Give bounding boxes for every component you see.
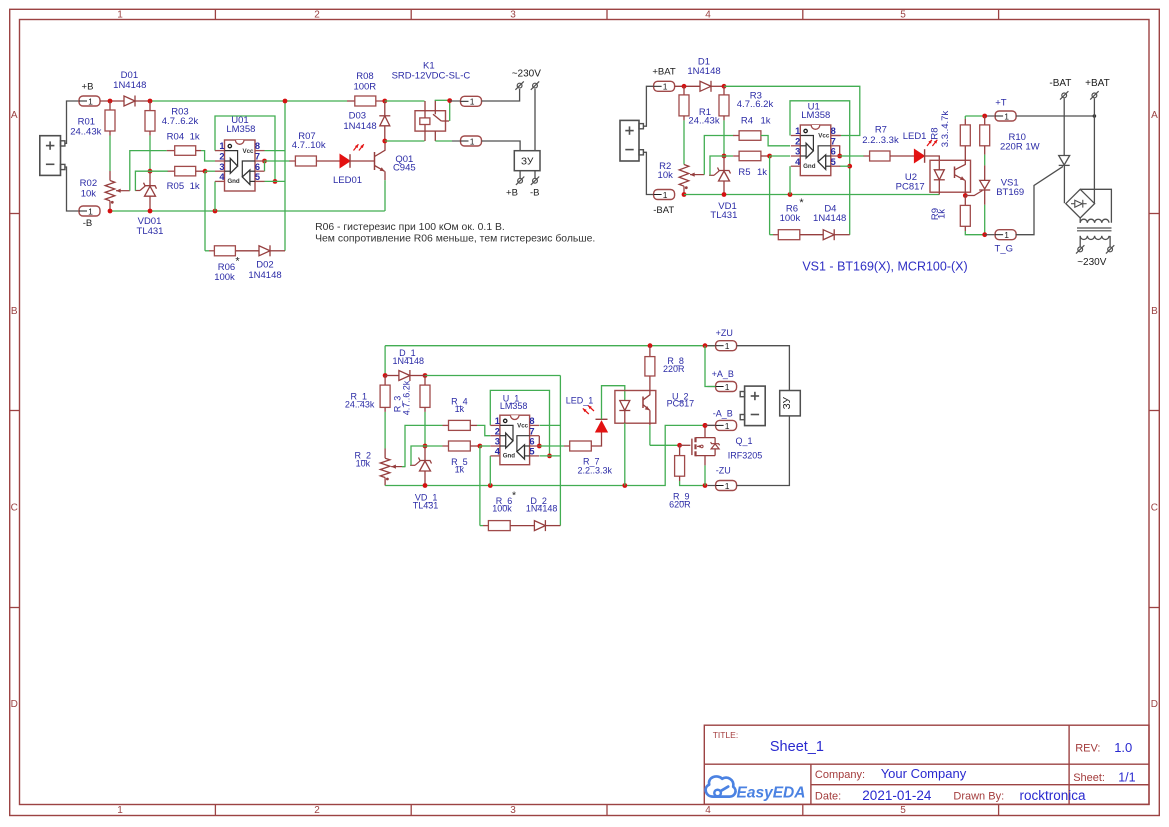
svg-text:-B: -B bbox=[530, 188, 540, 199]
svg-text:Vcc: Vcc bbox=[818, 133, 830, 140]
svg-text:4: 4 bbox=[795, 157, 801, 167]
svg-text:SRD-12VDC-SL-C: SRD-12VDC-SL-C bbox=[392, 71, 471, 82]
svg-text:4: 4 bbox=[219, 172, 225, 182]
svg-text:ЗУ: ЗУ bbox=[782, 396, 793, 409]
svg-text:620R: 620R bbox=[669, 500, 691, 510]
svg-text:BT169: BT169 bbox=[996, 187, 1024, 198]
svg-text:1: 1 bbox=[88, 96, 93, 106]
svg-text:PC817: PC817 bbox=[896, 181, 925, 192]
svg-text:REV:: REV: bbox=[1075, 743, 1100, 755]
svg-text:1k: 1k bbox=[757, 167, 767, 178]
svg-text:-BAT: -BAT bbox=[1049, 78, 1071, 89]
svg-text:7: 7 bbox=[529, 426, 534, 436]
svg-text:1k: 1k bbox=[455, 464, 465, 474]
svg-text:2: 2 bbox=[314, 10, 320, 21]
svg-text:*: * bbox=[512, 490, 516, 502]
svg-text:10k: 10k bbox=[658, 170, 674, 181]
svg-text:6: 6 bbox=[529, 437, 534, 447]
svg-text:LED1: LED1 bbox=[903, 131, 927, 142]
svg-text:2: 2 bbox=[795, 136, 800, 146]
svg-text:R4: R4 bbox=[741, 115, 753, 126]
svg-text:1k: 1k bbox=[190, 131, 200, 142]
svg-text:1: 1 bbox=[1004, 111, 1009, 121]
svg-text:5: 5 bbox=[900, 805, 906, 816]
svg-text:1: 1 bbox=[495, 416, 500, 426]
svg-text:Drawn By:: Drawn By: bbox=[953, 791, 1004, 803]
svg-text:1k: 1k bbox=[190, 181, 200, 192]
svg-text:*: * bbox=[799, 197, 804, 209]
svg-text:8: 8 bbox=[529, 416, 534, 426]
svg-text:B: B bbox=[11, 306, 18, 317]
svg-text:1: 1 bbox=[88, 206, 93, 216]
svg-text:EasyEDA: EasyEDA bbox=[737, 784, 806, 801]
svg-text:1.0: 1.0 bbox=[1114, 740, 1132, 755]
svg-text:LM358: LM358 bbox=[801, 110, 830, 121]
svg-text:R5: R5 bbox=[738, 167, 750, 178]
svg-text:1N4148: 1N4148 bbox=[687, 66, 720, 77]
svg-text:2.2..3.3k: 2.2..3.3k bbox=[578, 466, 613, 476]
svg-text:1: 1 bbox=[470, 97, 475, 107]
svg-text:5: 5 bbox=[255, 172, 260, 182]
svg-text:Vcc: Vcc bbox=[517, 423, 529, 430]
svg-text:3: 3 bbox=[795, 147, 800, 157]
svg-text:+A_B: +A_B bbox=[712, 369, 734, 379]
svg-text:C: C bbox=[11, 503, 18, 514]
svg-text:C945: C945 bbox=[393, 163, 416, 174]
svg-text:1k: 1k bbox=[760, 115, 770, 126]
svg-text:4: 4 bbox=[705, 805, 711, 816]
svg-text:A: A bbox=[1151, 110, 1158, 121]
svg-text:Company:: Company: bbox=[815, 769, 865, 781]
svg-text:R08: R08 bbox=[356, 71, 373, 82]
svg-text:3: 3 bbox=[495, 437, 500, 447]
svg-text:ЗУ: ЗУ bbox=[521, 157, 534, 168]
svg-text:R04: R04 bbox=[167, 131, 184, 142]
svg-text:1N4148: 1N4148 bbox=[526, 504, 558, 514]
svg-text:7: 7 bbox=[255, 152, 260, 162]
svg-text:24..43k: 24..43k bbox=[70, 126, 101, 137]
svg-text:1: 1 bbox=[725, 382, 730, 392]
svg-text:A: A bbox=[11, 110, 18, 121]
svg-text:3: 3 bbox=[510, 805, 516, 816]
svg-text:R06 - гистерезис при 100 кОм о: R06 - гистерезис при 100 кОм ок. 0.1 В. bbox=[315, 222, 505, 233]
svg-text:1: 1 bbox=[219, 141, 224, 151]
svg-text:6: 6 bbox=[831, 147, 836, 157]
svg-text:3: 3 bbox=[510, 10, 516, 21]
svg-text:1: 1 bbox=[725, 341, 730, 351]
svg-text:+BAT: +BAT bbox=[652, 66, 676, 77]
svg-text:LED01: LED01 bbox=[333, 175, 362, 186]
svg-text:Q_1: Q_1 bbox=[735, 436, 752, 446]
svg-text:220R: 220R bbox=[663, 364, 685, 374]
svg-text:+B: +B bbox=[506, 188, 518, 199]
svg-text:IRF3205: IRF3205 bbox=[728, 451, 763, 461]
svg-text:6: 6 bbox=[255, 162, 260, 172]
svg-text:R8: R8 bbox=[930, 127, 941, 139]
svg-text:10k: 10k bbox=[81, 188, 97, 199]
svg-text:T_G: T_G bbox=[995, 243, 1013, 254]
svg-text:7: 7 bbox=[831, 136, 836, 146]
svg-text:5: 5 bbox=[529, 447, 534, 457]
svg-text:5: 5 bbox=[900, 10, 906, 21]
svg-text:3: 3 bbox=[219, 162, 224, 172]
svg-text:D: D bbox=[1151, 699, 1158, 710]
svg-text:100k: 100k bbox=[780, 213, 801, 224]
svg-text:B: B bbox=[1151, 306, 1158, 317]
svg-text:1k: 1k bbox=[455, 404, 465, 414]
svg-text:-A_B: -A_B bbox=[713, 409, 733, 419]
svg-text:Чем сопротивление R06 меньше,: Чем сопротивление R06 меньше, тем гистер… bbox=[315, 232, 595, 244]
svg-text:1k: 1k bbox=[937, 209, 948, 219]
svg-text:VS1 - BT169(X), MCR100-(X): VS1 - BT169(X), MCR100-(X) bbox=[802, 259, 967, 273]
svg-text:2: 2 bbox=[219, 152, 224, 162]
svg-text:C: C bbox=[1151, 503, 1158, 514]
svg-text:1N4148: 1N4148 bbox=[393, 356, 425, 366]
svg-text:1/1: 1/1 bbox=[1118, 771, 1135, 785]
svg-text:100k: 100k bbox=[492, 504, 512, 514]
svg-text:1N4148: 1N4148 bbox=[343, 121, 376, 132]
svg-text:4.7..10k: 4.7..10k bbox=[292, 140, 326, 151]
svg-text:3.3..4.7k: 3.3..4.7k bbox=[940, 111, 951, 148]
svg-text:-B: -B bbox=[83, 218, 93, 229]
svg-text:+ZU: +ZU bbox=[716, 328, 733, 338]
svg-text:4.7..6.2k: 4.7..6.2k bbox=[401, 380, 411, 415]
svg-text:R7: R7 bbox=[875, 124, 887, 135]
svg-text:2021-01-24: 2021-01-24 bbox=[862, 788, 932, 803]
svg-text:TL431: TL431 bbox=[137, 226, 164, 237]
svg-text:LM358: LM358 bbox=[500, 401, 528, 411]
svg-text:-BAT: -BAT bbox=[653, 205, 674, 216]
svg-text:+B: +B bbox=[82, 81, 94, 92]
svg-text:5: 5 bbox=[831, 157, 836, 167]
svg-text:LED_1: LED_1 bbox=[566, 396, 594, 406]
svg-text:8: 8 bbox=[831, 126, 836, 136]
svg-text:100k: 100k bbox=[214, 272, 235, 283]
svg-text:+BAT: +BAT bbox=[1085, 78, 1110, 89]
svg-text:100R: 100R bbox=[353, 81, 376, 92]
svg-text:1: 1 bbox=[470, 136, 475, 146]
svg-text:2: 2 bbox=[495, 426, 500, 436]
svg-text:1: 1 bbox=[795, 126, 800, 136]
svg-text:PC817: PC817 bbox=[667, 399, 695, 409]
svg-text:1N4148: 1N4148 bbox=[248, 270, 281, 281]
svg-text:TL431: TL431 bbox=[413, 501, 439, 511]
svg-text:10k: 10k bbox=[356, 459, 371, 469]
svg-text:1N4148: 1N4148 bbox=[113, 80, 146, 91]
svg-text:1: 1 bbox=[663, 190, 668, 200]
svg-text:Gnd: Gnd bbox=[803, 163, 816, 170]
svg-text:TL431: TL431 bbox=[710, 210, 737, 221]
svg-text:1: 1 bbox=[1004, 230, 1009, 240]
svg-text:1: 1 bbox=[117, 10, 123, 21]
svg-text:1: 1 bbox=[117, 805, 123, 816]
svg-text:rocktronica: rocktronica bbox=[1020, 788, 1087, 803]
svg-text:Your Company: Your Company bbox=[881, 766, 967, 781]
svg-text:1: 1 bbox=[725, 421, 730, 431]
svg-text:220R 1W: 220R 1W bbox=[1000, 141, 1040, 152]
svg-text:Gnd: Gnd bbox=[227, 178, 240, 185]
svg-text:D03: D03 bbox=[349, 111, 366, 122]
svg-text:2: 2 bbox=[314, 805, 320, 816]
svg-text:1: 1 bbox=[663, 82, 668, 92]
svg-text:Gnd: Gnd bbox=[503, 453, 516, 460]
svg-text:-ZU: -ZU bbox=[716, 465, 731, 475]
svg-text:1: 1 bbox=[725, 481, 730, 491]
svg-text:4.7..6.2k: 4.7..6.2k bbox=[162, 116, 199, 127]
svg-text:D: D bbox=[11, 699, 18, 710]
svg-text:LM358: LM358 bbox=[226, 124, 255, 135]
svg-text:2.2..3.3k: 2.2..3.3k bbox=[862, 135, 899, 146]
svg-text:R05: R05 bbox=[167, 181, 184, 192]
svg-text:4: 4 bbox=[705, 10, 711, 21]
svg-text:Date:: Date: bbox=[815, 791, 841, 803]
svg-text:4.7..6.2k: 4.7..6.2k bbox=[737, 99, 774, 110]
svg-text:*: * bbox=[235, 256, 240, 268]
svg-text:24..43k: 24..43k bbox=[345, 400, 375, 410]
svg-text:4: 4 bbox=[495, 447, 501, 457]
svg-text:~230V: ~230V bbox=[512, 69, 542, 80]
svg-text:Sheet_1: Sheet_1 bbox=[770, 739, 824, 755]
svg-text:24..43k: 24..43k bbox=[688, 116, 719, 127]
svg-text:Vcc: Vcc bbox=[242, 148, 254, 155]
svg-text:8: 8 bbox=[255, 141, 260, 151]
svg-text:+T: +T bbox=[995, 98, 1007, 109]
svg-text:1N4148: 1N4148 bbox=[813, 213, 846, 224]
svg-text:TITLE:: TITLE: bbox=[713, 730, 739, 740]
svg-text:Sheet:: Sheet: bbox=[1073, 772, 1105, 784]
svg-text:~230V: ~230V bbox=[1077, 257, 1107, 268]
